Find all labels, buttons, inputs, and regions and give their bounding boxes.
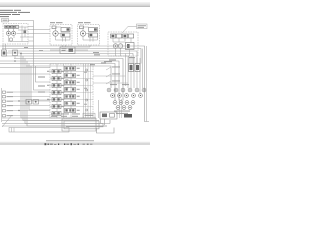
check valve circles right strip [86,69,88,111]
wire check valve drop [14,56,16,59]
travel motor M1 [50,25,72,46]
junction [20,53,22,55]
hose fitting cluster A [107,88,146,97]
actuator pilot wires [93,76,128,83]
leader wire [122,27,137,34]
row labels between columns [47,71,64,107]
right leader labels [112,67,120,82]
footer page marks [45,143,93,145]
control valve CV1 [47,64,93,118]
hydraulic oil tank T1 [9,128,69,133]
return loop lines [62,118,114,133]
header title text [0,10,30,17]
travel motor left label [50,22,55,23]
internal verticals [57,64,91,118]
pump outlet wires [0,27,50,47]
main pressure bus lines [0,46,149,122]
left spool column [52,69,61,115]
footer bar [0,142,150,145]
wire cluster B feed [120,99,122,118]
drain wire [98,100,100,118]
wire leader from pump label [8,21,34,56]
caption text line [46,139,94,142]
right edge wire [146,46,148,122]
hose fitting cluster A label [110,83,117,86]
main pump P1 [3,24,28,45]
junction dots port lines [18,100,19,101]
pump label [2,19,9,22]
pressure sensor group [26,100,39,105]
travel motor M2 [78,25,100,46]
control valve bottom labels [51,114,80,117]
shuttle valve block [50,45,90,54]
left vertical wire bundle [21,54,107,127]
pilot relief valve [2,44,23,56]
cushion valve [100,112,117,119]
right spool column [65,66,76,112]
return bus lines [2,118,110,126]
cluster B labels [114,111,130,114]
control valve label marks [38,77,45,93]
drain diagonal [2,115,12,127]
relief valve label box [83,113,95,118]
bus wire labels [90,52,135,65]
check valve [13,50,18,56]
port label column left [2,88,51,122]
bus tick labels [24,47,43,51]
control valve mid labels [65,72,87,105]
solenoid valve unit SV1 [108,32,138,56]
hose fitting cluster B [113,101,135,110]
solenoid valve label [137,24,148,29]
valve label dark [124,114,132,118]
header bar [0,2,150,7]
center joint S1 [126,49,143,94]
junction 2 [14,60,16,62]
travel motor right label [78,22,83,23]
row labels right [77,68,80,111]
spool row pilot lines [50,72,93,107]
